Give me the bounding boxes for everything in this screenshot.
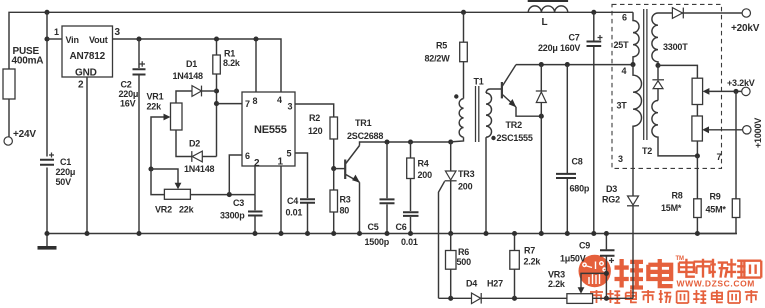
wire +12V rail from Vout [113, 39, 282, 92]
svg-text:1μ50V: 1μ50V [560, 254, 586, 264]
wire TR2 collector line to T2 pin4 [516, 64, 632, 66]
svg-text:1: 1 [278, 157, 284, 168]
svg-text:1N4148: 1N4148 [184, 164, 215, 174]
svg-text:1: 1 [54, 27, 59, 37]
watermark bottom row 专业电子元器件交易网站 [590, 290, 758, 303]
wire VR1 bottom to D2 [176, 130, 192, 157]
node rail TR3/T1 [448, 139, 453, 144]
node R1 rail [214, 36, 219, 41]
capacitor C9 1u 50V [560, 234, 615, 299]
node gnd TR3/R6 [448, 231, 453, 236]
resistor R6 500 [446, 234, 472, 299]
wire node B to VR2 wiper [151, 169, 181, 189]
svg-text:4: 4 [622, 66, 627, 76]
svg-text:VR2: VR2 [155, 205, 172, 215]
capacitor C3 3300p [220, 195, 263, 234]
svg-text:2SC2688: 2SC2688 [347, 131, 383, 141]
node gnd T1 [483, 231, 488, 236]
svg-text:TM: TM [676, 256, 684, 262]
node top-rail / C7 [591, 10, 596, 15]
svg-text:25T: 25T [614, 40, 630, 50]
svg-text:GND: GND [75, 68, 97, 79]
watermark text 电子市场网 [679, 259, 761, 278]
node T2 pin7 [695, 152, 722, 162]
transformer T1 primary [451, 77, 484, 142]
svg-text:120: 120 [308, 126, 323, 136]
svg-text:5: 5 [287, 149, 292, 159]
svg-text:VR1: VR1 [147, 92, 164, 102]
svg-text:R3: R3 [340, 195, 351, 205]
svg-text:1N4148: 1N4148 [173, 71, 204, 81]
transformer T2 secondary lower [652, 101, 697, 156]
node top-rail / input branch [44, 10, 49, 15]
capacitor C5 1500p [365, 142, 395, 247]
svg-text:NE555: NE555 [254, 124, 287, 136]
node gnd R3 [331, 231, 336, 236]
diode D1 1N4148 [173, 59, 217, 96]
node rail R4 [408, 139, 413, 144]
svg-text:7: 7 [245, 99, 250, 109]
svg-text:AN7812: AN7812 [70, 51, 106, 62]
capacitor C2 220u 16V [119, 39, 146, 234]
inductor L [528, 0, 568, 28]
svg-text:R1: R1 [224, 49, 235, 59]
svg-text:C3: C3 [233, 198, 244, 208]
resistor focus upper [658, 65, 703, 104]
svg-text:+3.2kV: +3.2kV [727, 78, 755, 88]
resistor R2 120 [308, 113, 338, 169]
node gnd TR2 [539, 231, 544, 236]
node A pin7 [214, 101, 219, 106]
svg-text:160V: 160V [560, 43, 580, 53]
node gnd C1 [44, 231, 49, 236]
transistor TR2 2SC1555 [497, 65, 542, 143]
terminal +20kV [731, 9, 760, 34]
wire pin 6 [229, 155, 242, 195]
svg-text:200: 200 [458, 182, 473, 192]
svg-text:8: 8 [253, 96, 258, 106]
transistor TR1 2SC2688 [334, 118, 384, 234]
diode damper across TR2 [536, 65, 547, 234]
node gnd pin1 [278, 231, 283, 236]
wire pin 5 [295, 153, 308, 234]
svg-text:T2: T2 [642, 146, 652, 156]
svg-text:L: L [542, 17, 548, 28]
svg-text:D2: D2 [189, 139, 200, 149]
transformer T2 winding 3T [617, 65, 642, 169]
resistor R7 2.2k [510, 234, 542, 299]
potentiometer VR2 22k [155, 189, 195, 214]
resistor R4 200 [407, 142, 432, 211]
node gnd C8 [565, 231, 570, 236]
svg-text:C1: C1 [60, 157, 71, 167]
potentiometer VR3 2.2k [548, 270, 593, 304]
svg-text:RG2: RG2 [602, 195, 620, 205]
node gnd R7 [512, 231, 517, 236]
svg-text:680p: 680p [570, 184, 590, 194]
svg-text:C4: C4 [287, 196, 298, 206]
svg-text:H27: H27 [487, 279, 503, 289]
svg-text:TR1: TR1 [355, 118, 372, 128]
svg-text:45M*: 45M* [706, 205, 727, 215]
wire pin 2 [254, 166, 256, 195]
svg-text:80: 80 [340, 206, 350, 216]
svg-text:220μ: 220μ [56, 167, 76, 177]
svg-text:Vin: Vin [66, 35, 79, 45]
node collector/damper diode [539, 62, 544, 67]
potentiometer VR1 22k [147, 92, 183, 131]
wire VR3 wiper [578, 273, 607, 293]
transformer T1 secondary [486, 89, 502, 234]
svg-text:C5: C5 [368, 222, 379, 232]
transformer T2 dashed box [612, 4, 722, 168]
terminal +24V [4, 129, 36, 145]
svg-text:R6: R6 [458, 247, 469, 257]
node gnd U GND [84, 231, 89, 236]
svg-text:3: 3 [115, 27, 121, 38]
svg-text:3300p: 3300p [220, 211, 245, 221]
svg-text:3: 3 [618, 154, 623, 164]
svg-text:C2: C2 [121, 80, 132, 90]
svg-text:500: 500 [457, 257, 472, 267]
wire pin 7 [217, 103, 243, 105]
wire VR2 right to pin6/pin2 node [190, 194, 255, 196]
svg-text:4: 4 [277, 95, 282, 105]
node gnd C6 [408, 231, 413, 236]
svg-text:1500p: 1500p [365, 237, 390, 247]
wire pin 3 [295, 104, 334, 117]
svg-text:7: 7 [717, 152, 722, 162]
svg-text:400mA: 400mA [12, 56, 44, 67]
node rail C5 [384, 139, 389, 144]
svg-text:22k: 22k [179, 205, 195, 215]
svg-text:2.2k: 2.2k [524, 257, 542, 267]
watermark icon circle [579, 255, 611, 287]
svg-text:R8: R8 [672, 191, 683, 201]
capacitor C8 680p [556, 65, 590, 234]
svg-text:T1: T1 [474, 77, 484, 87]
svg-text:0.01: 0.01 [401, 237, 418, 247]
wire TR1 collector rail [360, 142, 451, 146]
capacitor C6 0.01 [396, 212, 419, 247]
svg-text:16V: 16V [120, 99, 136, 109]
ground [38, 234, 57, 250]
svg-text:8.2k: 8.2k [223, 58, 241, 68]
svg-text:VR3: VR3 [548, 270, 565, 280]
svg-text:WWW.DZSC.COM: WWW.DZSC.COM [677, 279, 756, 289]
node pin8 rail [253, 36, 258, 41]
node fb C9 [604, 296, 609, 301]
diode inside T2 [652, 65, 664, 100]
svg-text:TR2: TR2 [506, 120, 523, 130]
node gnd C5 [384, 231, 389, 236]
svg-text:0.01: 0.01 [286, 208, 303, 218]
node gnd R8 [695, 231, 700, 236]
terminal +1000V [743, 118, 763, 148]
node gnd C9 [604, 231, 609, 236]
node collector line / C8 [565, 62, 570, 67]
node fb R7 [512, 296, 517, 301]
node C2 [136, 36, 141, 41]
node gnd TR1 emitter [357, 231, 362, 236]
svg-text:C6: C6 [396, 222, 407, 232]
resistor R8 15M [661, 156, 701, 234]
resistor R3 80 [330, 169, 351, 234]
diode D2 1N4148 [184, 139, 217, 175]
resistor R1 8.2k [213, 39, 241, 157]
wire VR1 wiper [151, 114, 171, 169]
resistor R5 82/2W [425, 12, 468, 98]
node T2 secondary tap [655, 63, 660, 68]
watermark url WWW.DZSC.COM [677, 279, 756, 289]
node gnd C3 [252, 231, 257, 236]
node C9 wiper junction [604, 271, 609, 276]
node A D1 [214, 88, 219, 93]
IC U1 NE555 [242, 92, 295, 169]
wire VR1 top to D1 [176, 91, 192, 103]
capacitor C1 220u 50V [40, 153, 75, 188]
svg-text:220μ: 220μ [119, 89, 139, 99]
node pin6 junction [227, 192, 232, 197]
wire fuse to +24V terminal [8, 99, 10, 137]
wire pin 1 [280, 166, 282, 234]
diode D4 H27 [466, 279, 503, 304]
resistor R9 45M [697, 91, 739, 233]
node gnd C2 [136, 231, 141, 236]
node +3.2kV / R9 [733, 89, 738, 94]
regulator U AN7812 [54, 26, 121, 91]
svg-text:200: 200 [418, 170, 433, 180]
svg-text:Vout: Vout [89, 35, 108, 45]
svg-text:15M*: 15M* [661, 203, 682, 213]
node Vin junction [44, 36, 49, 41]
svg-text:220μ: 220μ [538, 43, 558, 53]
node fb R6 [448, 296, 453, 301]
node top-rail / R5 [461, 10, 466, 15]
svg-text:6: 6 [622, 13, 627, 23]
node TR1 base [331, 166, 336, 171]
svg-text:6: 6 [245, 151, 250, 161]
svg-text:D3: D3 [606, 184, 617, 194]
svg-text:2.2k: 2.2k [548, 279, 566, 289]
node T2 pin4 [622, 62, 636, 76]
watermark text 维库 [615, 259, 673, 288]
watermark TM [676, 256, 684, 262]
svg-text:R7: R7 [524, 246, 535, 256]
svg-text:C9: C9 [579, 241, 590, 251]
svg-text:3: 3 [288, 102, 293, 112]
svg-text:3300T: 3300T [663, 42, 688, 52]
fuse PUSE 400mA [3, 46, 43, 99]
svg-text:D4: D4 [466, 279, 477, 289]
svg-text:C7: C7 [569, 33, 580, 43]
svg-text:2SC1555: 2SC1555 [497, 133, 533, 143]
node emitter/damper diode [539, 114, 544, 119]
svg-text:2: 2 [78, 80, 84, 91]
diode HV top [658, 8, 742, 19]
wire input branch vertical [46, 12, 48, 233]
svg-text:3T: 3T [617, 101, 628, 111]
node B wiper bus [148, 166, 153, 171]
svg-text:22k: 22k [147, 102, 163, 112]
thyristor TR3 200 [439, 142, 475, 298]
transformer T2 core [644, 9, 647, 140]
wire +3.2kV tap [703, 88, 742, 95]
terminal +3.2kV [727, 78, 755, 96]
svg-text:50V: 50V [56, 177, 72, 187]
wire Vin [47, 38, 62, 40]
capacitor C4 0.01 [286, 196, 316, 218]
wire ground rail [47, 233, 737, 235]
svg-text:R4: R4 [418, 159, 429, 169]
node gnd C4 [305, 231, 310, 236]
svg-text:D1: D1 [186, 59, 197, 69]
node gnd C7 [591, 231, 596, 236]
svg-text:82/2W: 82/2W [425, 54, 451, 64]
svg-text:R9: R9 [710, 192, 721, 202]
diode D3 RG2 [602, 168, 639, 298]
svg-text:+20kV: +20kV [731, 23, 760, 34]
svg-text:+1000V: +1000V [753, 118, 763, 148]
resistor focus lower [692, 105, 703, 156]
wire top rail +24V [9, 12, 633, 69]
transformer T2 primary 25T [614, 12, 640, 64]
wire node B to VR2 left [151, 169, 164, 195]
svg-text:R5: R5 [436, 41, 447, 51]
transformer T1 core [476, 86, 479, 142]
transformer T2 secondary 3300T upper [652, 13, 688, 65]
svg-text:+24V: +24V [13, 129, 36, 140]
wire +1000V tap [702, 126, 742, 133]
svg-text:TR3: TR3 [458, 169, 475, 179]
svg-text:C8: C8 [572, 157, 583, 167]
wire AN7812 GND pin2 [86, 77, 88, 234]
capacitor C7 220u 160V [538, 12, 603, 233]
svg-text:R2: R2 [309, 113, 320, 123]
wire pin 8 [255, 39, 257, 92]
wire feedback bottom line [439, 297, 634, 299]
